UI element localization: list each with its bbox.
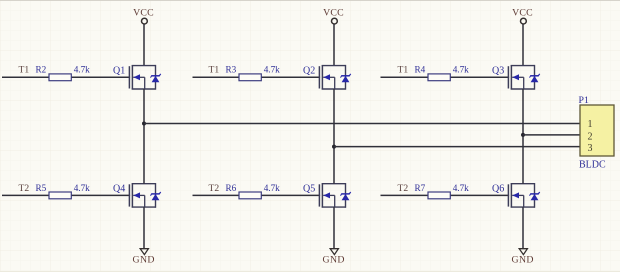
wire VCC to Q3 drain [522,24,524,66]
wire VCC to Q2 drain [333,24,335,66]
svg-text:3: 3 [588,143,593,154]
transistor Q3 (N-MOSFET with body diode) [508,65,539,90]
svg-text:4.7k: 4.7k [74,65,90,75]
wire Q3 source to Q6 drain (phase node) [522,89,524,184]
resistor R7 [428,192,450,199]
ground GND (column 2) [322,249,344,266]
svg-text:4.7k: 4.7k [453,183,469,193]
svg-text:GND: GND [132,254,154,265]
svg-text:BLDC: BLDC [579,160,606,171]
svg-text:Q3: Q3 [492,65,504,76]
transistor Q4 (N-MOSFET with body diode) [129,183,160,208]
resistor R3 [239,74,261,81]
junction phase node (column 2) [332,145,336,149]
svg-text:Q2: Q2 [303,65,315,76]
svg-text:2: 2 [588,131,593,142]
transistor Q5 (N-MOSFET with body diode) [319,183,350,208]
power VCC (column 3) [512,8,533,24]
wire Q5 source to GND [333,207,335,249]
svg-text:1: 1 [588,119,593,130]
transistor Q1 (N-MOSFET with body diode) [129,65,160,90]
wire net T2 to Q4 gate [2,194,130,196]
svg-text:R4: R4 [415,65,426,75]
wire Q1 source to Q4 drain (phase node) [143,89,145,184]
svg-text:VCC: VCC [512,8,533,19]
transistor Q2 (N-MOSFET with body diode) [319,65,350,90]
svg-text:R2: R2 [36,65,47,75]
svg-text:R7: R7 [415,183,426,193]
svg-text:R6: R6 [226,183,237,193]
svg-text:GND: GND [511,254,533,265]
resistor R2 [49,74,71,81]
svg-text:VCC: VCC [133,8,154,19]
svg-text:P1: P1 [579,95,589,106]
resistor R4 [428,74,450,81]
wire net T2 to Q6 gate [381,194,510,196]
svg-text:R3: R3 [226,65,237,75]
svg-text:4.7k: 4.7k [74,183,90,193]
wire phase node column 2 to connector pin 3 [334,146,580,148]
svg-text:T2: T2 [209,183,220,194]
power VCC (column 2) [323,8,344,24]
svg-text:Q5: Q5 [303,183,315,194]
svg-text:T1: T1 [209,65,220,76]
svg-text:4.7k: 4.7k [264,65,280,75]
svg-text:T2: T2 [19,183,30,194]
junction phase node (column 3) [521,133,525,137]
connector P1 (BLDC header) [580,105,614,156]
wire net T1 to Q2 gate [193,76,321,78]
svg-text:GND: GND [322,254,344,265]
junction phase node (column 1) [142,122,146,126]
ground GND (column 1) [132,249,154,266]
svg-text:VCC: VCC [323,8,344,19]
svg-text:Q6: Q6 [492,183,504,194]
power VCC (column 1) [133,8,154,24]
svg-text:Q1: Q1 [113,65,125,76]
wire Q4 source to GND [143,207,145,249]
wire net T1 to Q3 gate [381,76,510,78]
svg-text:T2: T2 [398,183,409,194]
top sheet edge [0,0,620,2]
svg-text:4.7k: 4.7k [264,183,280,193]
wire net T2 to Q5 gate [193,194,321,196]
resistor R5 [49,192,71,199]
wire Q2 source to Q5 drain (phase node) [333,89,335,184]
svg-text:R5: R5 [36,183,47,193]
wire net T1 to Q1 gate [2,76,130,78]
ground GND (column 3) [511,249,533,266]
transistor Q6 (N-MOSFET with body diode) [508,183,539,208]
svg-text:Q4: Q4 [113,183,125,194]
wire phase node column 3 to connector pin 2 [523,134,580,136]
wire Q6 source to GND [522,207,524,249]
wire VCC to Q1 drain [143,24,145,66]
svg-text:4.7k: 4.7k [453,65,469,75]
resistor R6 [239,192,261,199]
svg-text:T1: T1 [19,65,30,76]
svg-text:T1: T1 [398,65,409,76]
wire phase node column 1 to connector pin 1 [144,123,580,125]
